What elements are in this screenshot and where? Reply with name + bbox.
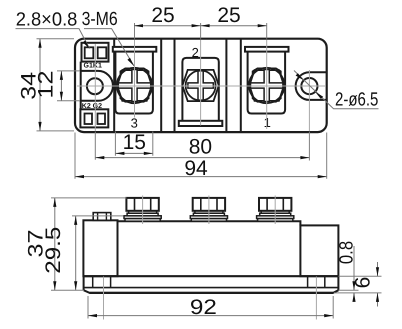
svg-text:6: 6 bbox=[352, 277, 375, 289]
svg-text:25: 25 bbox=[217, 4, 240, 27]
svg-text:29.5: 29.5 bbox=[42, 227, 65, 274]
svg-text:G1K1: G1K1 bbox=[84, 63, 102, 70]
svg-text:80: 80 bbox=[189, 136, 212, 159]
svg-text:3: 3 bbox=[131, 116, 138, 131]
svg-text:2: 2 bbox=[192, 45, 199, 60]
svg-text:25: 25 bbox=[151, 4, 174, 27]
svg-text:15: 15 bbox=[123, 131, 146, 154]
svg-text:12: 12 bbox=[35, 71, 58, 99]
svg-text:2.8×0.8: 2.8×0.8 bbox=[16, 10, 78, 31]
svg-text:3-M6: 3-M6 bbox=[82, 9, 118, 30]
svg-text:2-ø6.5: 2-ø6.5 bbox=[335, 90, 378, 111]
